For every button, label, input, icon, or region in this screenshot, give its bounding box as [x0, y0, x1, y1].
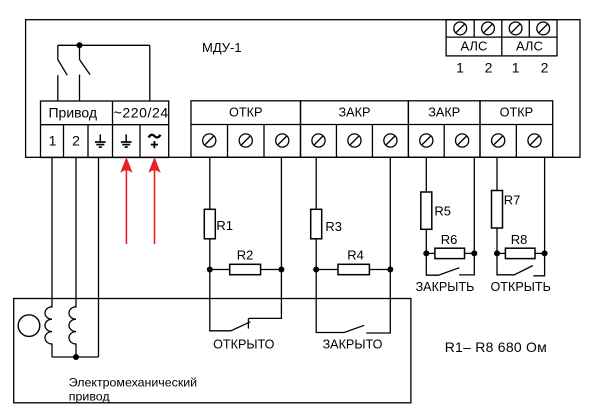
svg-text:R4: R4 [347, 247, 364, 262]
svg-text:R1: R1 [216, 218, 233, 233]
svg-text:R1– R8 680 Ом: R1– R8 680 Ом [445, 339, 547, 355]
svg-text:1: 1 [456, 60, 464, 76]
svg-text:привод: привод [69, 389, 111, 403]
svg-text:R7: R7 [504, 193, 521, 208]
svg-text:2: 2 [485, 60, 493, 76]
svg-text:Привод: Привод [48, 105, 97, 121]
svg-text:ЗАКРЫТЬ: ЗАКРЫТЬ [416, 280, 475, 294]
svg-text:МДУ-1: МДУ-1 [202, 40, 242, 55]
svg-text:R8: R8 [511, 232, 528, 247]
svg-text:R6: R6 [441, 232, 458, 247]
svg-text:АЛС: АЛС [516, 38, 543, 53]
svg-text:1: 1 [512, 60, 520, 76]
svg-text:ОТКРЫТЬ: ОТКРЫТЬ [491, 280, 551, 294]
svg-text:2: 2 [72, 133, 80, 149]
svg-text:ОТКР: ОТКР [500, 106, 533, 120]
svg-text:R3: R3 [325, 219, 342, 234]
svg-text:R2: R2 [237, 247, 254, 262]
svg-text:~220/24: ~220/24 [114, 105, 169, 121]
svg-text:R5: R5 [434, 203, 451, 218]
svg-text:ОТКРЫТО: ОТКРЫТО [213, 337, 275, 351]
svg-text:2: 2 [541, 60, 549, 76]
svg-text:Электромеханический: Электромеханический [69, 375, 197, 389]
svg-text:1: 1 [49, 133, 57, 149]
svg-text:ЗАКРЫТО: ЗАКРЫТО [323, 337, 383, 351]
svg-text:АЛС: АЛС [460, 38, 487, 53]
svg-text:ЗАКР: ЗАКР [338, 106, 370, 120]
svg-text:ЗАКР: ЗАКР [428, 106, 460, 120]
svg-text:ОТКР: ОТКР [229, 106, 262, 120]
